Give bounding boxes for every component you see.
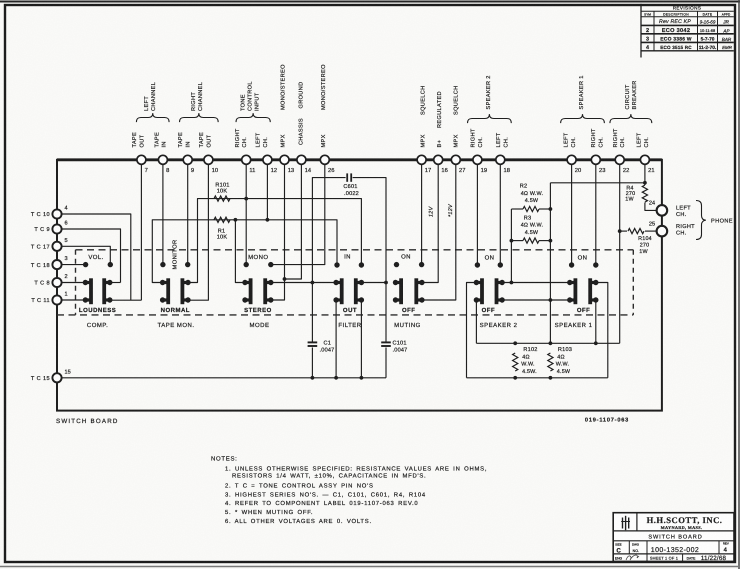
resistor R3 (523, 238, 539, 243)
node label MPX pin17 (420, 134, 426, 147)
wire filter lower-left to ground bus (335, 300, 337, 378)
wire pin19 drop to spk2 on-left (476, 160, 478, 265)
wire (0, 0, 1, 1)
resistor R103 (548, 353, 553, 371)
node label B+ pin16 (437, 140, 443, 148)
wire pin21 drop to R4 (644, 160, 646, 185)
wire pin11 drop to mono left (245, 160, 247, 265)
wire C1 to ground bus (311, 348, 313, 378)
node junction 312.4,377.8 (311, 376, 315, 380)
node label SQUELCH pin27 (453, 86, 459, 116)
node junction 336.1,377.8 (334, 376, 338, 380)
node pin 21 (640, 155, 649, 164)
resistor R4 (642, 185, 647, 202)
node MONO contacts (244, 262, 249, 267)
resistor R101 (214, 196, 230, 201)
wire R104 to phone 25 (645, 230, 656, 232)
wire pin13 drop to stereo lower-right (271, 160, 285, 300)
node label CIRCUIT BREAKER (625, 80, 638, 109)
wire spk2-spk1 upper interconnect (502, 282, 570, 284)
wire spk2-spk1 lower interconnect (502, 299, 570, 301)
wire (0, 566, 740, 568)
node switch-assembly-dashed-box (76, 249, 634, 251)
wire R1 to stereo upper-left (235, 220, 245, 283)
node junction 386.0,282.5 (384, 281, 388, 285)
wire (0, 1, 740, 3)
node label TAPE OUT pin10 (199, 132, 212, 148)
node terminal T C 15 pin 15 (52, 373, 61, 382)
node title-block (613, 513, 734, 563)
node brace right channel (180, 113, 219, 122)
wire spk1 lower-right to top rail (595, 300, 597, 343)
node junction 515.2,343.3 (513, 341, 517, 345)
node junction 644.9,182.8 (643, 181, 647, 185)
resistor R1 (214, 217, 230, 222)
node junction 550.4,377.8 (549, 376, 553, 380)
node label TAPE IN pin9 (178, 132, 191, 148)
node label LEFT CHANNEL (144, 82, 157, 111)
node terminal T C 18 pin 3 (52, 260, 61, 269)
node junction 235.4,219.8 (234, 218, 238, 222)
node spk1 ON contacts (569, 262, 574, 267)
node pin 12 (263, 155, 272, 164)
wire pin18 drop to spk2 on-right (499, 160, 501, 265)
node junction 515.2,377.8 (513, 376, 517, 380)
wire speaker bottom rail (467, 377, 608, 379)
node muting ON contacts (394, 262, 399, 267)
node signature (626, 555, 639, 560)
node logo-HHScott (622, 518, 624, 529)
node pin 13 (280, 155, 289, 164)
node label REGULATED pin16 (437, 91, 443, 128)
node junction 595.8,343.3 (594, 341, 598, 345)
node VOL contacts (83, 262, 88, 267)
node MONITOR contacts (160, 262, 165, 267)
node label SPEAKER 1 (579, 75, 585, 109)
node pin 14 (297, 155, 306, 164)
node phone brace (696, 201, 706, 240)
switch S5 MUTING (393, 278, 425, 329)
node pin 10 (204, 155, 213, 164)
wire top bus (57, 158, 662, 161)
node label LEFT CH pin20 (564, 132, 577, 147)
node pin 9 (183, 155, 192, 164)
node pin 17 (417, 155, 426, 164)
wire pin14 drop to pin13 net (285, 160, 302, 279)
node label MONO/STEREO pin13 (280, 64, 287, 110)
node pin 20 (567, 155, 576, 164)
wire TC8-2 to loudness upper-left (58, 282, 85, 284)
node label SPEAKER 2 (486, 75, 492, 109)
capacitor C1 (308, 341, 318, 343)
node brace left channel (136, 113, 169, 122)
node terminal T C 11 pin 1 (52, 295, 61, 304)
wire TC10-4 to loudness lower-right (58, 214, 131, 300)
node terminal 25 phone right (657, 226, 668, 237)
node label TAPE OUT pin7 (132, 132, 145, 148)
wire filter lower-right to ground bus (360, 300, 362, 378)
node brace tone control (236, 113, 270, 122)
wire stereo upper-right to C1 node (271, 282, 313, 284)
switch S4 FILTER (333, 278, 364, 329)
wire TC17-5 to vol right contact (58, 246, 110, 264)
node junction 361.4,377.8 (360, 376, 364, 380)
wire spk2 upper-left to bottom rail (467, 283, 477, 378)
wire C101 to ground bus (385, 348, 387, 378)
node label CHASSIS pin14 (299, 118, 305, 145)
wire loudness upper-right link (110, 282, 121, 284)
wire R1 net run (152, 220, 337, 283)
node pin 16 (434, 155, 443, 164)
node pin 27 (451, 155, 460, 164)
node terminal 24 phone left (657, 205, 668, 216)
node label MPX pin27 (453, 134, 459, 147)
node terminal T C 9 pin 6 (52, 224, 61, 233)
wire filter upper-left to C1 node (312, 282, 336, 284)
node label TAPE IN pin8 (154, 132, 167, 148)
node switch-board-outline (57, 160, 662, 411)
node label LEFT CH pin18 (496, 132, 509, 147)
wire pin9 drop to monitor right (187, 160, 189, 265)
capacitor C601 (346, 173, 348, 181)
resistor R104 (628, 229, 644, 234)
wire pin10 drop to tapemon lower-right (188, 160, 208, 300)
wire pin16 drop to muting upper-right (422, 160, 438, 283)
wire R4 to phone tip 24 (645, 203, 656, 211)
switch S3 MODE (242, 278, 273, 329)
node label RIGHT CH pin11 (235, 128, 248, 147)
node junction 267.4,219.8 (266, 218, 270, 222)
node pin 23 (591, 155, 600, 164)
node label LEFT CH pin12 (256, 132, 269, 147)
node pin 26 (320, 155, 329, 164)
node pin 22 (615, 155, 624, 164)
node junction 550.4,343.3 (549, 341, 553, 345)
node junction 511.4,240.6 (510, 239, 514, 243)
node brace circuit breaker (610, 114, 652, 123)
wire pin26 drop to mono right (271, 160, 325, 265)
wire speaker top rail (476, 342, 619, 344)
node label GROUND pin14 (299, 82, 305, 109)
node junction 246.2,198.6 (244, 197, 248, 201)
node label LEFT CH pin21 (637, 132, 650, 147)
node 12V label (429, 205, 435, 217)
node junction 511.4,282.5 (510, 281, 514, 285)
node label MPX pin26 (321, 134, 327, 147)
node pin 7 (137, 155, 146, 164)
wire R2R3 right riser (549, 183, 551, 343)
wire spk1 upper-right to bottom rail (596, 283, 608, 378)
node IN contacts (334, 262, 339, 267)
node junction 550.4,240.6 (549, 239, 553, 243)
node revision-table (641, 4, 734, 58)
node spk2 ON contacts (475, 262, 480, 267)
node pin 19 (473, 155, 482, 164)
node label MONO/STEREO pin26 (320, 64, 327, 110)
node junction 550.4,209.0 (549, 207, 553, 211)
node junction 312.4,282.5 (311, 281, 315, 285)
node *12V label (448, 203, 454, 217)
node pin 18 (496, 155, 505, 164)
wire pin27 drop to muting lower-right (422, 160, 456, 300)
node pin 8 (158, 155, 167, 164)
node brace speaker 1 (561, 114, 605, 123)
node pin 11 (242, 155, 251, 164)
wire pin7 drop (140, 160, 142, 300)
node label SQUELCH pin17 (420, 86, 426, 116)
switch S2 TAPE MON (157, 278, 194, 329)
wire R104 link pin22 (620, 230, 627, 232)
wire spk2 lower-left to top rail (475, 300, 477, 343)
wire pin8 drop to monitor left (162, 160, 164, 265)
wire loudness lower-right link (110, 299, 142, 301)
node label RIGHT CH pin22 (613, 128, 626, 147)
node label RIGHT CHANNEL (191, 82, 204, 111)
node terminal T C 17 pin 5 (52, 242, 61, 251)
wire R101 net run (188, 199, 361, 283)
switch S6 SPEAKER 2 (474, 278, 518, 329)
capacitor C101 (381, 341, 391, 343)
wire C601 left leg (312, 178, 345, 342)
node label RIGHT CH pin19 (471, 128, 484, 147)
wire TC9-6 to loudness upper-right (58, 229, 121, 283)
wire (738, 0, 740, 569)
wire TC11-1 to loudness lower-left (58, 299, 85, 301)
wire TC15 ground bus (58, 377, 386, 379)
wire pin21 horizontal to speakers (550, 182, 645, 184)
node notes (211, 455, 487, 525)
node label TONE CONTROL INPUT (240, 81, 260, 111)
node terminal T C 8 pin 2 (52, 278, 61, 287)
resistor R2 (523, 206, 539, 211)
wire filter upper-right to C101 node (361, 282, 386, 284)
wire TC18-3 to vol left contact (58, 264, 86, 266)
wire R2R3 left riser (510, 209, 512, 283)
node label RIGHT CH pin23 (591, 128, 604, 147)
switch S1 LOUDNESS (79, 278, 116, 329)
wire pin23 drop to spk1 on-right (595, 160, 597, 265)
wire pin22 drop to speaker top rail (619, 160, 621, 343)
resistor R102 (513, 353, 518, 371)
node terminal T C 10 pin 4 (52, 209, 61, 218)
wire pin20 drop to spk1 on-left (571, 160, 573, 265)
node junction 284.5,279.0 (283, 277, 287, 281)
node brace speaker 2 (468, 114, 512, 123)
switch S7 SPEAKER 1 (555, 278, 599, 329)
node junction 550.4,300.0 (549, 298, 553, 302)
node junction 619.7,231.1 (618, 229, 622, 233)
wire pin12 drop to R1 (266, 160, 268, 220)
wire C601 right leg (353, 178, 386, 342)
wire pin17 drop to muting on-right (421, 160, 423, 265)
node label MPX pin13 (281, 134, 287, 147)
